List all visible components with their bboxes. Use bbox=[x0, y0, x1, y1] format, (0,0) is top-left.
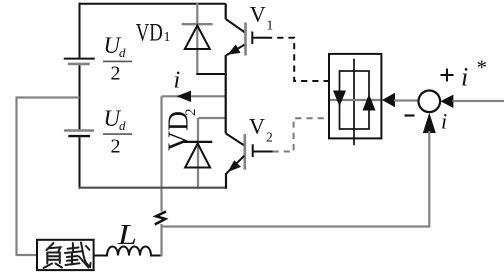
svg-text:VD: VD bbox=[136, 20, 163, 47]
label Ud/2 upper bbox=[103, 33, 132, 84]
svg-text:L: L bbox=[117, 220, 137, 251]
arrowhead i bbox=[177, 91, 192, 102]
wire left DC rail bbox=[79, 3, 81, 58]
svg-text:1: 1 bbox=[164, 30, 171, 45]
char fu 负 bbox=[47, 243, 54, 250]
current sensor zigzag bbox=[155, 212, 166, 225]
svg-text:i: i bbox=[441, 109, 447, 134]
diode VD1 bbox=[182, 3, 213, 74]
load box (negative/load 负载) bbox=[37, 240, 94, 270]
wire feedback horizontal bbox=[162, 225, 431, 227]
svg-text:d: d bbox=[119, 118, 126, 133]
svg-text:V: V bbox=[250, 1, 266, 26]
loop down arrow bbox=[333, 91, 346, 107]
svg-text:i: i bbox=[174, 68, 181, 94]
loop up arrow bbox=[363, 94, 376, 111]
wire reference input i* bbox=[452, 100, 504, 102]
transistor V2 (IGBT) bbox=[226, 96, 273, 188]
arrowhead feedback up bbox=[423, 113, 436, 133]
char zai 载 bbox=[68, 248, 79, 249]
wire between capacitors bbox=[79, 65, 81, 129]
wire top rail bbox=[79, 3, 226, 5]
arrowhead into summing junction bbox=[440, 95, 453, 108]
svg-text:d: d bbox=[119, 45, 126, 60]
wire i arrow horizontal (midpoint to switch node) bbox=[162, 95, 226, 97]
block signal line bbox=[330, 99, 381, 101]
wire left rail lower bbox=[79, 137, 81, 188]
wire VD1 anode to emitter bbox=[196, 73, 226, 75]
svg-text:*: * bbox=[477, 56, 488, 80]
summing junction bbox=[419, 91, 441, 113]
capacitor C2 (Ud/2 lower) bbox=[64, 131, 94, 137]
svg-text:2: 2 bbox=[266, 129, 273, 144]
wire comparator input bbox=[394, 99, 419, 101]
block vertical axis bbox=[353, 59, 355, 146]
label Ud/2 lower bbox=[103, 106, 132, 157]
wire outer left vertical bbox=[15, 97, 17, 256]
label VD2 (rotated) bbox=[162, 109, 199, 152]
svg-text:2: 2 bbox=[111, 135, 121, 157]
inductor L bbox=[94, 247, 162, 256]
diode VD2 bbox=[183, 118, 212, 189]
svg-text:VD: VD bbox=[162, 111, 194, 151]
dashed gate path V1 bbox=[266, 38, 328, 81]
label plus bbox=[441, 69, 454, 82]
svg-text:2: 2 bbox=[111, 62, 121, 84]
wire midpoint output vertical bbox=[160, 96, 162, 211]
dashed gate path V2 bbox=[273, 118, 329, 151]
hysteresis loop bbox=[340, 71, 370, 129]
transistor V1 (IGBT) bbox=[226, 4, 266, 97]
wire capacitor midpoint tap bbox=[17, 96, 80, 98]
svg-text:2: 2 bbox=[183, 109, 199, 117]
capacitor C1 (Ud/2 upper) bbox=[64, 59, 95, 64]
svg-text:V: V bbox=[249, 113, 265, 138]
wire VD2 cathode to collector node bbox=[199, 117, 226, 119]
arrowhead into block bbox=[382, 93, 395, 108]
wire to load box bbox=[16, 254, 38, 256]
wire feedback vertical bbox=[428, 131, 430, 227]
wire bottom rail bbox=[79, 187, 227, 189]
svg-text:i: i bbox=[461, 63, 468, 92]
load text 负载 stroke drawing bbox=[44, 243, 91, 269]
hysteresis comparator block bbox=[329, 54, 381, 138]
label minus bbox=[405, 114, 415, 116]
svg-text:1: 1 bbox=[267, 17, 274, 32]
